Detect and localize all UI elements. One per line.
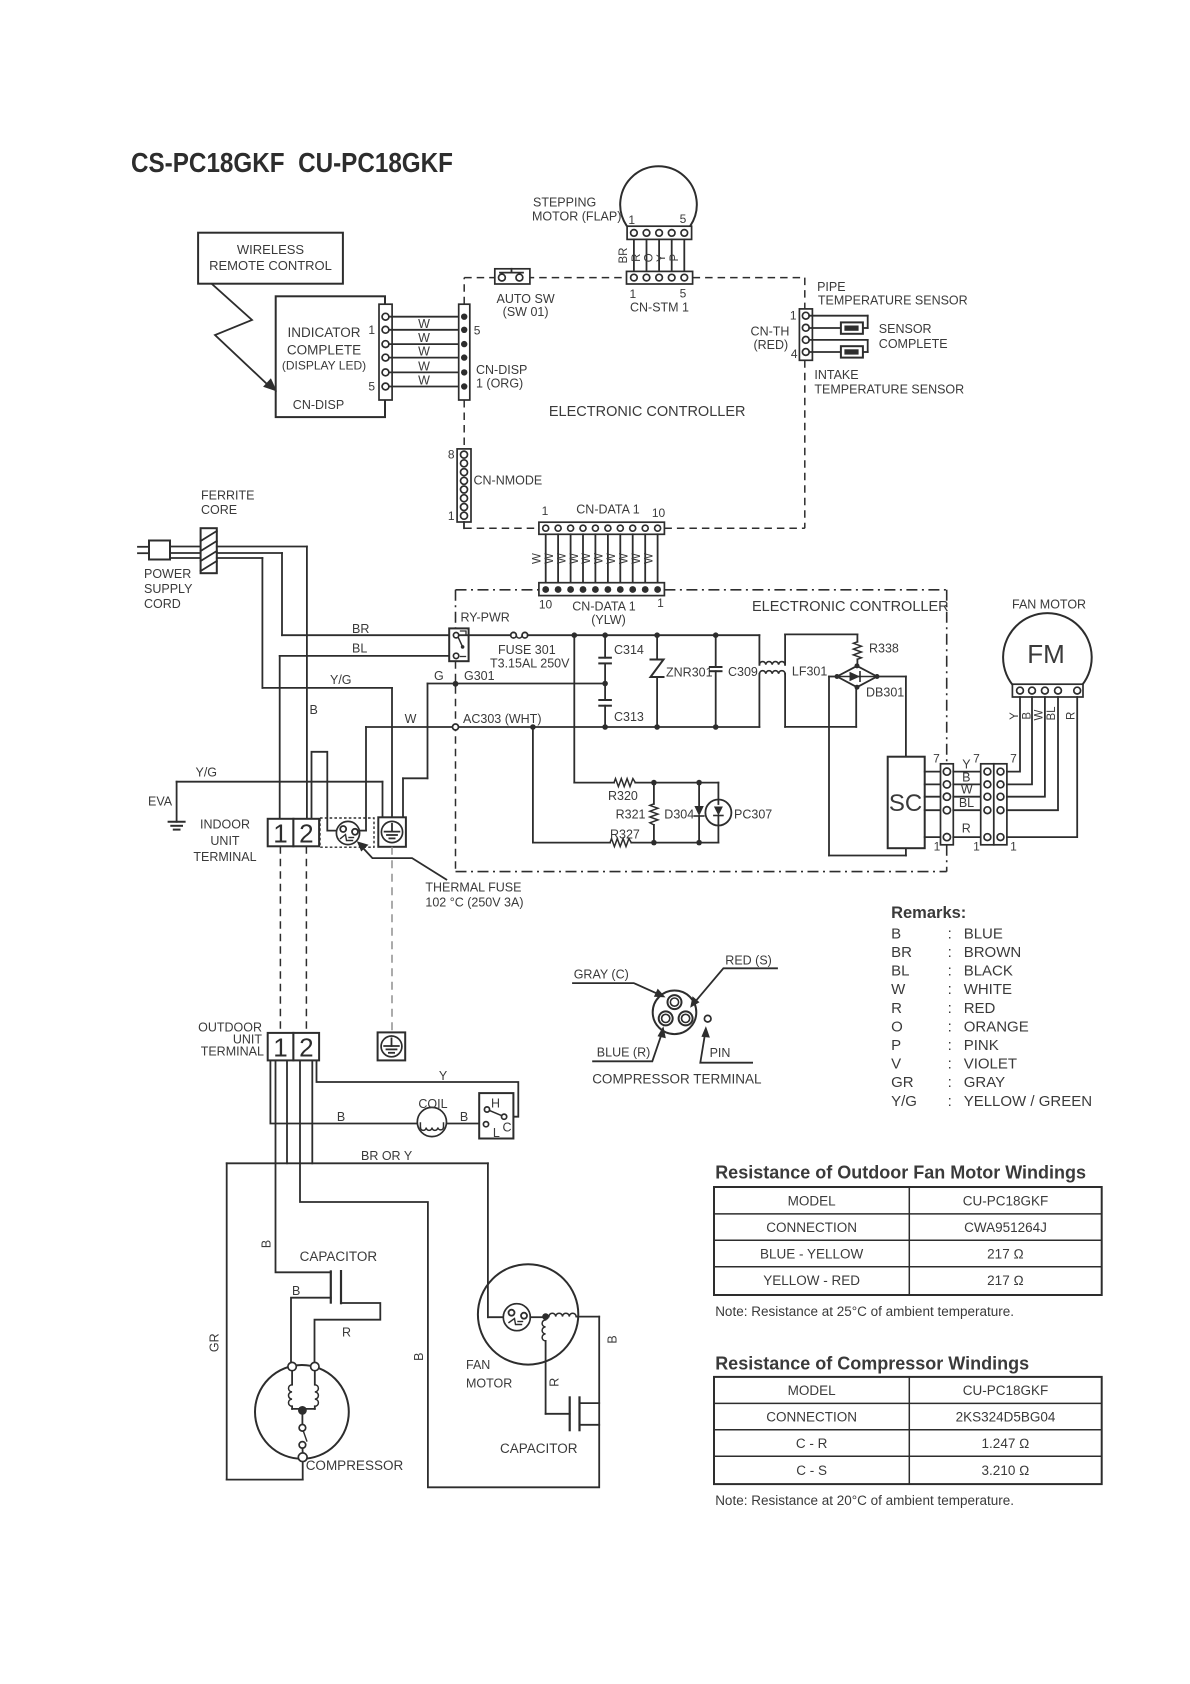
svg-text:SUPPLY: SUPPLY [144,582,193,596]
wire G (earth screw to G301) [403,669,453,817]
svg-text:1: 1 [934,840,941,854]
label BLUE (R) with arrow [593,1026,666,1061]
svg-text:CU-PC18GKF: CU-PC18GKF [963,1193,1049,1208]
svg-text:YELLOW - RED: YELLOW - RED [763,1273,860,1288]
fan capacitor [500,1396,599,1456]
zigzag arrow to indicator [212,284,277,392]
pipe temperature sensor [809,280,967,334]
svg-text:COMPLETE: COMPLETE [287,343,361,358]
svg-text:R: R [631,254,643,262]
svg-text:RED: RED [964,1000,996,1017]
main DC rail from fuse [528,632,760,638]
svg-text:THERMAL FUSE: THERMAL FUSE [425,881,521,895]
svg-text:B: B [310,703,318,717]
svg-text:PIPE: PIPE [817,280,846,294]
svg-text:PC307: PC307 [734,808,772,822]
svg-text:GR: GR [891,1074,914,1091]
svg-text:TEMPERATURE SENSOR: TEMPERATURE SENSOR [818,294,968,308]
svg-text::: : [948,1037,952,1054]
svg-text:P: P [891,1037,901,1054]
svg-text:T3.15AL 250V: T3.15AL 250V [490,657,570,671]
svg-text::: : [948,944,952,961]
svg-text:W: W [418,331,430,345]
svg-text:V: V [891,1056,901,1073]
svg-text:Y: Y [656,254,668,262]
svg-text:CN-DATA 1: CN-DATA 1 [572,600,635,614]
wire B capacitor to compressor pin1 [291,1284,331,1362]
svg-text:2: 2 [299,1033,313,1063]
svg-text:R: R [891,1000,902,1017]
svg-text:INDICATOR: INDICATOR [287,325,360,340]
svg-text:COMPRESSOR: COMPRESSOR [306,1458,404,1473]
svg-text:3.210 Ω: 3.210 Ω [982,1463,1030,1478]
svg-text:FAN MOTOR: FAN MOTOR [1012,598,1086,612]
svg-text:W: W [544,553,556,564]
wire terminal 1 to compressor capacitor [260,1060,331,1272]
svg-text:AC303 (WHT): AC303 (WHT) [463,712,541,726]
indoor unit terminal blocks 1 2 [193,818,319,865]
svg-text:CAPACITOR: CAPACITOR [300,1249,378,1264]
svg-text:W: W [619,553,631,564]
svg-text:R320: R320 [608,789,638,803]
svg-text:WHITE: WHITE [964,981,1012,998]
diode bridge DB301 [835,663,905,699]
svg-text::: : [948,1074,952,1091]
thermal fuse pointer arrow and label [357,841,524,909]
wire BR (cord to RY-PWR) [217,553,449,636]
compressor windings table [714,1377,1102,1484]
svg-text:B: B [606,1335,620,1343]
svg-text:1: 1 [542,504,549,518]
svg-text:CN-DATA 1: CN-DATA 1 [576,503,639,517]
resistor R338 [853,634,899,666]
svg-text:W: W [961,783,973,797]
svg-text:R: R [962,821,971,835]
svg-text::: : [948,1093,952,1110]
svg-text:FERRITE: FERRITE [201,489,254,503]
svg-text:COMPRESSOR TERMINAL: COMPRESSOR TERMINAL [592,1072,762,1087]
svg-text:R: R [1066,712,1078,720]
svg-text:(DISPLAY LED): (DISPLAY LED) [282,359,366,373]
svg-text:7: 7 [973,751,980,765]
svg-text:UNIT: UNIT [210,834,240,848]
wire rail to R320 [573,635,575,782]
svg-text:MOTOR: MOTOR [466,1377,512,1391]
resistor R321 [616,783,658,843]
svg-text:8: 8 [448,448,455,462]
svg-text:ORANGE: ORANGE [964,1018,1029,1035]
svg-text::: : [948,1000,952,1017]
svg-text:Remarks:: Remarks: [891,904,966,922]
svg-text:SC: SC [889,790,922,817]
svg-text:FM: FM [1027,639,1065,669]
svg-text:B: B [292,1284,300,1298]
svg-text:Resistance of Outdoor Fan Moto: Resistance of Outdoor Fan Motor Windings [715,1163,1086,1183]
EVA ground [148,782,186,830]
svg-text:CN-DISP: CN-DISP [476,363,527,377]
svg-text:W: W [569,553,581,564]
connector CN-TH (RED) [751,309,813,362]
power supply cord plug [138,541,193,612]
outdoor controller dash-dot boundary [456,590,947,872]
svg-text:W: W [606,553,618,564]
svg-text:R338: R338 [869,642,899,656]
svg-text:W: W [891,981,906,998]
svg-text::: : [948,925,952,942]
svg-text:W: W [418,374,430,388]
svg-text:C314: C314 [614,643,644,657]
svg-text:2KS324D5BG04: 2KS324D5BG04 [956,1409,1056,1424]
svg-text:TERMINAL: TERMINAL [201,1045,264,1059]
svg-text:BR: BR [618,248,630,264]
coil [417,1097,447,1137]
svg-text:FAN: FAN [466,1358,490,1372]
svg-text:R321: R321 [616,808,646,822]
wire W (thermal fuse to AC303) [360,712,453,831]
opto coupler PC307 [705,783,772,843]
node AC303 (WHT) [453,712,760,730]
svg-text:MODEL: MODEL [788,1383,837,1398]
svg-text:MODEL: MODEL [788,1193,837,1208]
resistor R320 [574,779,718,803]
auto switch SW01 [495,269,555,319]
earth screw terminal (outdoor) [378,1032,406,1060]
svg-text:BROWN: BROWN [964,944,1022,961]
connector CN-NMODE [448,448,542,529]
svg-text:W: W [556,553,568,564]
svg-text:BLUE: BLUE [964,925,1003,942]
svg-text:BR OR Y: BR OR Y [361,1149,413,1163]
svg-text:B: B [337,1110,345,1124]
svg-text:PIN: PIN [710,1046,731,1060]
svg-text:BL: BL [891,963,909,980]
svg-text:W: W [418,359,430,373]
svg-text:4: 4 [791,347,798,361]
svg-text:BL: BL [959,796,974,810]
svg-text:BLACK: BLACK [964,963,1013,980]
connector (controller side, 7..1) [933,751,953,853]
compressor terminal inset [653,991,711,1035]
svg-text:VIOLET: VIOLET [964,1056,1017,1073]
stepping motor connector [627,212,692,239]
svg-text:CN-NMODE: CN-NMODE [474,474,543,488]
stepping motor (flap) [532,166,697,226]
svg-text:CAPACITOR: CAPACITOR [500,1441,578,1456]
svg-text:Y/G: Y/G [330,673,352,687]
line filter LF301 [759,634,857,727]
svg-text:CN-TH: CN-TH [751,324,790,338]
svg-text:TEMPERATURE SENSOR: TEMPERATURE SENSOR [814,383,964,397]
svg-text:5: 5 [368,380,375,394]
svg-text:W: W [594,553,606,564]
svg-text:COMPLETE: COMPLETE [879,337,948,351]
wires between connectors Y B W BL R [953,758,980,838]
wires SC to connector [925,772,941,838]
svg-text:GRAY: GRAY [964,1074,1005,1091]
connector CN-STM 1 [627,271,693,314]
svg-text:W: W [643,553,655,564]
svg-text:R: R [548,1378,562,1387]
svg-text:O: O [891,1018,903,1035]
wireless remote control box [198,233,343,284]
wire GR [207,1163,302,1479]
fan motor (outdoor) [466,1264,620,1414]
svg-text:REMOTE CONTROL: REMOTE CONTROL [209,258,332,273]
ferrite core [201,489,255,574]
svg-text:AUTO SW: AUTO SW [497,292,555,306]
svg-text:ELECTRONIC CONTROLLER: ELECTRONIC CONTROLLER [752,599,949,615]
diode D304 [664,783,704,843]
wire B (terminal 1 to coil) [270,1060,417,1124]
svg-text:ZNR301: ZNR301 [666,666,713,680]
svg-text:102 °C (250V 3A): 102 °C (250V 3A) [425,896,523,910]
svg-text:W: W [405,712,417,726]
svg-text:C - S: C - S [796,1463,827,1478]
svg-text::: : [948,963,952,980]
svg-text:YELLOW / GREEN: YELLOW / GREEN [964,1093,1092,1110]
svg-text:(RED): (RED) [753,338,788,352]
svg-text:CN-DISP: CN-DISP [293,398,344,412]
switch H L C [479,1093,513,1140]
svg-text:10: 10 [652,506,666,520]
label GRAY (C) with arrow [573,968,666,998]
node G301 [453,669,608,687]
indicator complete (display led) box [276,296,385,417]
svg-text:STEPPING: STEPPING [533,196,596,210]
svg-text:O: O [644,253,656,262]
svg-text:5: 5 [680,212,687,226]
svg-text:R327: R327 [610,828,640,842]
svg-text:CS-PC18GKF CU-PC18GKF: CS-PC18GKF CU-PC18GKF [131,147,453,178]
svg-text:DB301: DB301 [866,686,904,700]
indoor controller dashed boundary [464,278,805,529]
svg-text:CONNECTION: CONNECTION [766,1220,857,1235]
connector CN-DATA 1 (YLW bottom) [539,583,665,627]
svg-text:B: B [891,925,901,942]
svg-text:WIRELESS: WIRELESS [237,242,305,257]
wire terminal 2 to fan cap loop [300,1060,599,1487]
compressor capacitor [300,1249,378,1304]
wire Y/G (cord to earth screw) [217,558,392,817]
svg-text:B: B [412,1353,426,1361]
cord wires to ferrite [170,547,201,559]
svg-text:FUSE 301: FUSE 301 [498,643,556,657]
svg-text:CONNECTION: CONNECTION [766,1409,857,1424]
fan motor FM [1003,598,1092,698]
capacitor C314 [598,635,644,683]
svg-text:5: 5 [474,324,481,338]
relay RY-PWR [449,611,510,662]
svg-text:G301: G301 [464,669,495,683]
svg-text:Y: Y [1009,712,1021,720]
fuse 301 [459,632,570,670]
svg-text:(SW 01): (SW 01) [503,305,549,319]
svg-text:MOTOR (FLAP): MOTOR (FLAP) [532,210,621,224]
outdoor unit terminal blocks 1 2 [198,1020,319,1062]
svg-text:Y/G: Y/G [891,1093,917,1110]
svg-text:R: R [342,1326,351,1340]
wire Y/G (EVA to earth screw) [177,766,383,818]
fan motor windings table [714,1187,1102,1295]
svg-text:W: W [532,553,544,564]
svg-text:GRAY (C): GRAY (C) [574,968,629,982]
svg-text:SENSOR: SENSOR [879,322,932,336]
connector CN-DISP 1 (ORG) [459,304,528,400]
svg-text:1: 1 [657,596,664,610]
wire DB301 right to SC top [877,677,906,757]
svg-text:BR: BR [352,622,369,636]
connector CN-DATA 1 (top) [539,503,666,535]
svg-text:CORD: CORD [144,597,181,611]
svg-text:H: H [491,1097,500,1111]
resistor R327 [533,727,719,847]
svg-text:W: W [418,317,430,331]
wire DB301 left to SC bottom [829,677,906,856]
wire terminal 2 to thermal fuse (U loop) [312,752,337,831]
wire B (cord to terminal 2) [217,547,318,819]
svg-text:1.247 Ω: 1.247 Ω [982,1436,1030,1451]
wire BR OR Y [227,1060,488,1317]
svg-text:G: G [434,669,444,683]
svg-text:BLUE - YELLOW: BLUE - YELLOW [760,1247,864,1262]
svg-text:COIL: COIL [418,1097,447,1111]
svg-text::: : [948,1018,952,1035]
svg-text:1 (ORG): 1 (ORG) [476,377,523,391]
svg-text:217 Ω: 217 Ω [987,1247,1024,1262]
svg-text:INDOOR: INDOOR [200,818,250,832]
svg-text:1: 1 [628,213,635,227]
svg-text:CWA951264J: CWA951264J [964,1220,1047,1235]
stepping motor wires BR R O Y P [618,239,684,271]
wires indicator to CN-DISP 1 (ORG) [389,317,459,388]
intake temperature sensor [809,322,964,397]
svg-text:217 Ω: 217 Ω [987,1273,1024,1288]
svg-text:C - R: C - R [796,1436,828,1451]
varistor ZNR301 [651,635,713,727]
capacitor C313 [598,684,644,728]
svg-text:GR: GR [207,1333,221,1352]
svg-text:5: 5 [680,287,687,301]
svg-text:BLUE (R): BLUE (R) [597,1046,650,1060]
svg-text:C: C [502,1121,511,1135]
svg-text:1: 1 [448,509,455,523]
svg-text:RY-PWR: RY-PWR [461,611,510,625]
svg-text:1: 1 [973,840,980,854]
svg-text:1: 1 [273,1033,287,1063]
remarks [891,904,1092,1110]
svg-text:Resistance of Compressor Windi: Resistance of Compressor Windings [715,1354,1029,1374]
svg-text:1: 1 [790,309,797,323]
svg-text:7: 7 [933,751,940,765]
svg-text:B: B [260,1240,274,1248]
svg-text:Note: Resistance at 25°C of am: Note: Resistance at 25°C of ambient temp… [715,1304,1014,1319]
svg-text:PINK: PINK [964,1037,999,1054]
IC SC [888,757,925,849]
svg-text:Y/G: Y/G [196,766,218,780]
wire Y (terminal 2 to switch) [317,1060,519,1116]
wire BL (RY-PWR to terminal 1) [280,642,450,819]
connector CN-DISP (on indicator box) [368,304,392,400]
CN-DATA wires with W labels [532,534,658,582]
svg-text:EVA: EVA [148,795,173,809]
earth screw terminal (indoor) [378,817,406,847]
svg-text:Note: Resistance at 20°C of am: Note: Resistance at 20°C of ambient temp… [715,1493,1014,1508]
svg-text:P: P [669,254,681,262]
svg-text:BL: BL [352,642,367,656]
svg-text:10: 10 [539,598,553,612]
svg-text:1: 1 [1010,840,1017,854]
svg-text:1: 1 [368,323,375,337]
wire R capacitor to compressor pin2 [315,1303,381,1362]
svg-text:RED (S): RED (S) [725,954,772,968]
svg-text:2: 2 [299,819,313,849]
svg-text:L: L [493,1126,500,1140]
label RED (S) with arrow [690,954,777,1008]
svg-text:POWER: POWER [144,567,191,581]
wire B (coil to switch) [447,1110,484,1124]
svg-text:BL: BL [1046,706,1058,721]
svg-text:W: W [581,553,593,564]
svg-text:1: 1 [273,819,287,849]
label PIN with arrow [700,1026,752,1063]
svg-text:Y: Y [439,1069,448,1083]
capacitor C309 [709,635,758,727]
svg-text::: : [948,1056,952,1073]
svg-text:CORE: CORE [201,503,237,517]
thermal fuse (dotted box) [320,818,374,847]
svg-text:TERMINAL: TERMINAL [193,850,256,864]
svg-text:C313: C313 [614,710,644,724]
svg-text:BR: BR [891,944,912,961]
svg-text:C309: C309 [728,665,758,679]
svg-text:W: W [418,345,430,359]
svg-text:B: B [1021,712,1033,720]
fan motor wires to connector [1007,697,1078,837]
svg-text:LF301: LF301 [792,665,827,679]
fan motor connector (two columns) [973,751,1017,853]
svg-text:INTAKE: INTAKE [814,368,858,382]
svg-text:B: B [460,1110,468,1124]
svg-text:1: 1 [629,287,636,301]
terminal dashes indoor to outdoor [280,846,392,1033]
svg-text:CU-PC18GKF: CU-PC18GKF [963,1383,1049,1398]
svg-text:W: W [631,553,643,564]
svg-text:(YLW): (YLW) [591,613,626,627]
compressor [255,1362,403,1479]
svg-text:CN-STM 1: CN-STM 1 [630,301,689,315]
svg-text:D304: D304 [664,808,694,822]
svg-text:7: 7 [1010,751,1017,765]
svg-text:W: W [1034,709,1046,720]
svg-text::: : [948,981,952,998]
svg-text:ELECTRONIC CONTROLLER: ELECTRONIC CONTROLLER [549,404,746,420]
